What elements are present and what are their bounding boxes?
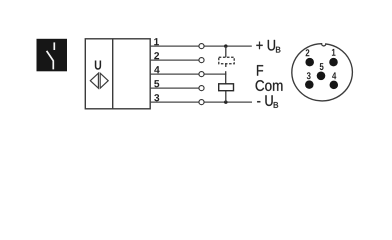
connector pin label 1: [332, 49, 336, 56]
pin number 4: [154, 66, 159, 73]
vertical wire segment b2: [225, 71, 227, 84]
label -UB: [257, 95, 272, 106]
wire pin3 cont: [204, 101, 252, 103]
wire pin4 cont: [204, 73, 226, 75]
connector pin 4 dot: [330, 81, 339, 90]
connector pin label 2: [306, 49, 310, 56]
vertical wire segment b: [225, 64, 227, 67]
pin number 1: [154, 38, 159, 45]
sensor icon S1 (black square with NO switch contact symbol): [37, 39, 68, 72]
pin number 3: [154, 94, 159, 101]
label Com: [256, 80, 283, 91]
wire pin5: [150, 87, 199, 89]
connector contact circle 5: [199, 86, 204, 91]
connector contact circle 4: [199, 72, 204, 77]
vertical wire segment c: [225, 91, 227, 102]
optional component (dashed box): [219, 57, 234, 64]
wire pin1 cont: [204, 45, 252, 47]
connector contact circle 2: [199, 58, 204, 63]
junction dot on -UB wire: [224, 100, 228, 104]
connector pin label 4: [332, 72, 336, 79]
divider: [112, 39, 114, 109]
pin number 5: [154, 80, 159, 87]
connector pin label 3: [307, 72, 311, 79]
connector pin 2 dot: [305, 58, 314, 67]
connector contact circle 3: [199, 100, 204, 105]
pin number 2: [154, 52, 159, 59]
label +UB: [256, 40, 275, 51]
label U: [95, 60, 101, 69]
vertical wire segment a: [225, 46, 227, 57]
connector pin label 5: [320, 63, 324, 70]
connector pin 1 dot: [329, 58, 338, 67]
converter symbol (diamond with center bar): [90, 73, 108, 88]
connector pin 5 dot: [317, 72, 326, 81]
label F: [257, 65, 263, 75]
wire pin2: [150, 59, 199, 61]
wire pin1: [150, 45, 199, 47]
connector contact circle 1: [199, 44, 204, 49]
M12 connector face outline with keyway notch: [292, 44, 353, 101]
wire pin3: [150, 101, 199, 103]
sensor block U1 (amplifier box outline): [85, 39, 150, 109]
label -UB subscript: [274, 102, 278, 108]
label +UB subscript: [276, 47, 280, 53]
junction dot on +UB wire: [224, 44, 228, 48]
load resistor R: [219, 84, 234, 91]
connector pin 3 dot: [305, 80, 314, 89]
wire pin4: [150, 73, 199, 75]
